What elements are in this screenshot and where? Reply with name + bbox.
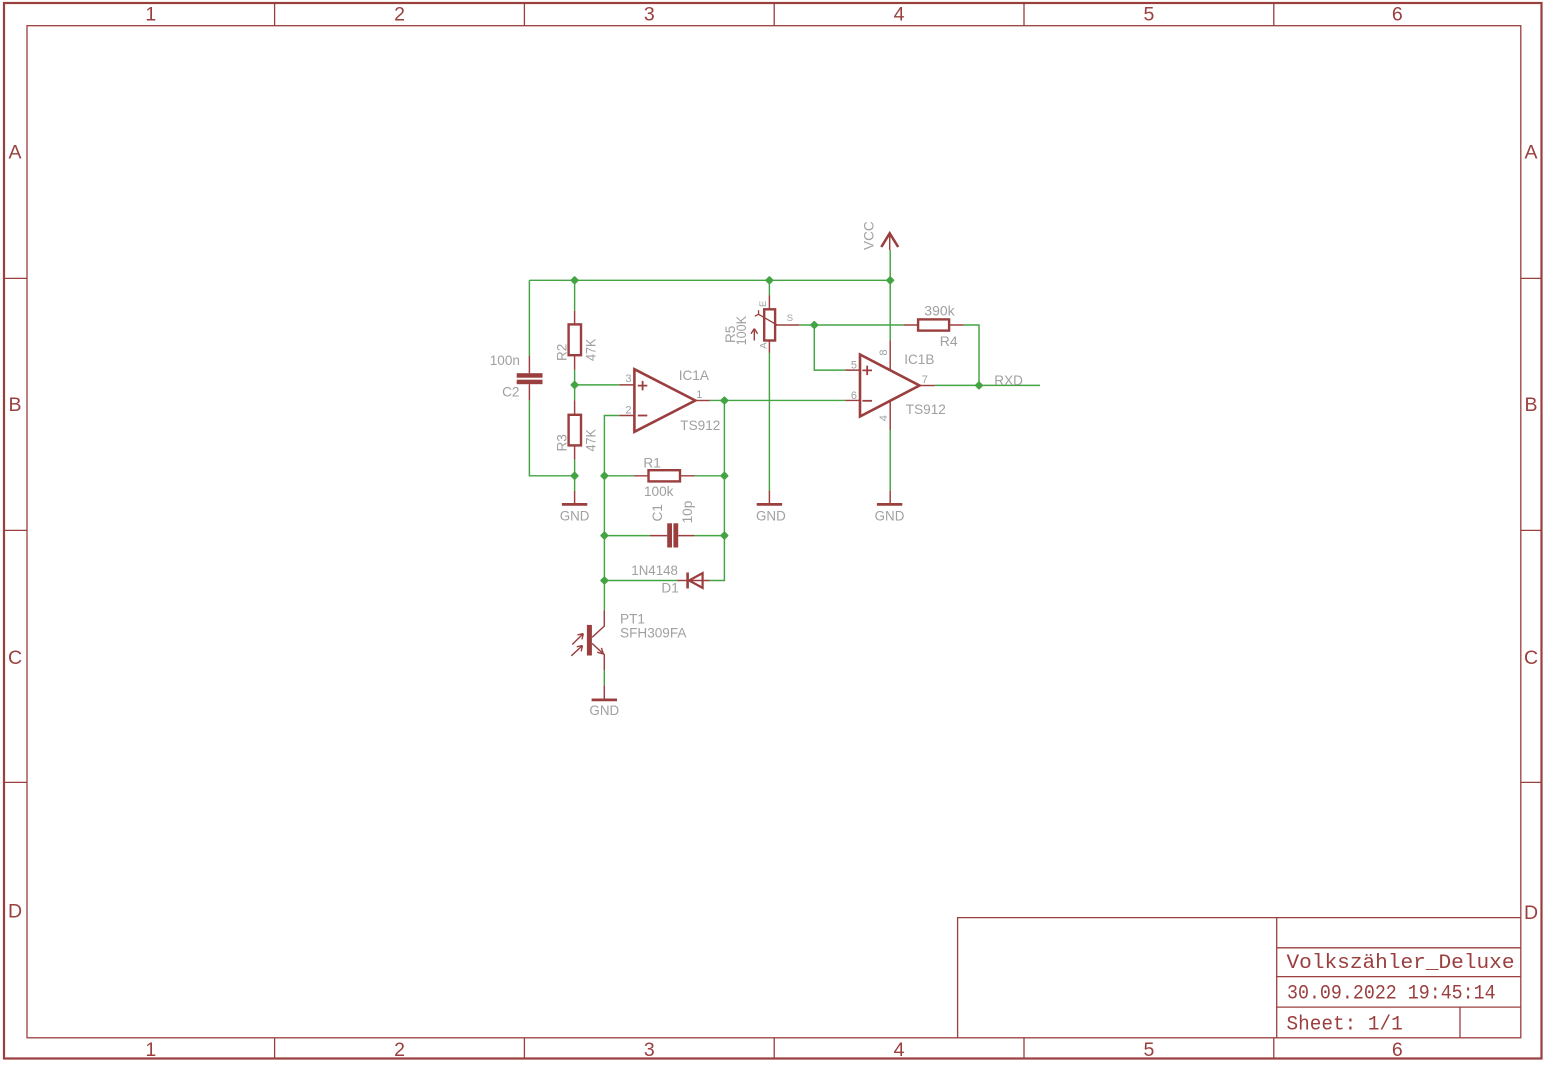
triangle	[689, 573, 703, 588]
body	[569, 415, 581, 446]
lead	[920, 385, 935, 387]
ground bar	[562, 503, 587, 506]
lead	[775, 324, 799, 326]
svg-text:B: B	[8, 394, 21, 416]
svg-text:1: 1	[696, 389, 702, 401]
wire op-amp A output to IC1B -input	[710, 399, 846, 401]
svg-text:GND: GND	[589, 703, 619, 718]
ground GND (R3 node)	[560, 491, 590, 523]
svg-text:5: 5	[1143, 1039, 1154, 1061]
svg-text:1: 1	[145, 4, 156, 26]
svg-text:E: E	[758, 301, 769, 307]
svg-text:R1: R1	[643, 456, 660, 471]
lead	[768, 295, 770, 352]
svg-text:B: B	[1524, 394, 1537, 416]
triangle body	[634, 369, 695, 432]
svg-text:C2: C2	[502, 384, 519, 399]
op-amp U1 IC1A	[619, 368, 720, 433]
svg-text:S: S	[787, 313, 793, 324]
power VCC arrow	[862, 221, 899, 250]
title block	[958, 918, 1521, 1038]
svg-text:D1: D1	[661, 581, 678, 596]
junction node feedback / R1 left	[601, 473, 607, 479]
svg-text:GND: GND	[875, 508, 905, 523]
svg-text:R4: R4	[940, 333, 958, 349]
svg-text:IC1B: IC1B	[904, 352, 934, 367]
lead	[574, 400, 576, 459]
svg-text:4: 4	[878, 415, 890, 421]
resistor R2	[554, 311, 598, 370]
ground bar	[592, 699, 617, 702]
capacitor C2	[490, 353, 543, 400]
svg-text:6: 6	[1392, 1039, 1403, 1061]
svg-text:D: D	[1524, 902, 1538, 924]
lead	[574, 311, 576, 370]
lead	[678, 580, 710, 582]
wire RXD net	[935, 384, 1040, 386]
junction node VCC bus / R2	[572, 277, 578, 283]
cathode bar	[686, 573, 689, 589]
svg-text:Sheet: 1/1: Sheet: 1/1	[1287, 1014, 1403, 1037]
body	[569, 324, 581, 355]
lead	[889, 233, 891, 250]
wire R4 right to output node	[964, 325, 979, 385]
svg-text:3: 3	[644, 4, 655, 26]
svg-text:3: 3	[644, 1039, 655, 1061]
ground bar	[877, 503, 902, 506]
svg-text:390k: 390k	[924, 302, 955, 318]
plate	[517, 380, 543, 385]
svg-text:TS912: TS912	[906, 402, 946, 417]
svg-text:100n: 100n	[490, 353, 520, 368]
lead	[845, 370, 859, 400]
body	[649, 470, 681, 481]
svg-text:3: 3	[625, 373, 631, 385]
lead	[574, 491, 576, 503]
svg-text:R3: R3	[554, 434, 569, 451]
svg-text:47K: 47K	[584, 429, 599, 452]
potentiometer R5	[723, 295, 799, 352]
plate	[667, 523, 672, 547]
lead	[904, 324, 964, 326]
svg-text:C: C	[1524, 647, 1538, 669]
svg-text:VCC: VCC	[862, 221, 877, 250]
lead	[889, 491, 891, 504]
svg-text:2: 2	[394, 4, 405, 26]
svg-text:4: 4	[894, 1039, 905, 1061]
svg-text:30.09.2022 19:45:14: 30.09.2022 19:45:14	[1287, 983, 1496, 1006]
polarity mark	[638, 415, 648, 417]
svg-text:A: A	[8, 142, 21, 164]
ground GND (PT1)	[589, 685, 619, 718]
svg-text:7: 7	[922, 374, 928, 386]
arrow	[572, 634, 583, 645]
lead	[889, 340, 891, 430]
svg-text:6: 6	[1392, 4, 1403, 26]
svg-text:R2: R2	[554, 344, 569, 361]
base bar	[587, 625, 592, 656]
lead	[634, 475, 694, 477]
svg-text:2: 2	[625, 405, 631, 417]
wire R5 bottom to GND	[768, 353, 770, 491]
svg-text:IC1A: IC1A	[679, 368, 710, 383]
junction node IC1A output	[721, 397, 727, 403]
ground GND (IC1B)	[875, 491, 905, 524]
svg-text:6: 6	[851, 390, 857, 402]
svg-text:10p: 10p	[680, 501, 695, 524]
lead	[650, 535, 695, 537]
arrow	[597, 648, 603, 654]
svg-text:PT1: PT1	[620, 612, 645, 627]
svg-text:100K: 100K	[734, 316, 749, 346]
junction node VCC bus / VCC column	[887, 277, 893, 283]
svg-text:Volkszähler_Deluxe: Volkszähler_Deluxe	[1287, 952, 1515, 975]
svg-text:8: 8	[878, 349, 890, 355]
triangle body	[860, 355, 920, 417]
lead	[592, 643, 604, 670]
wire D1 row	[604, 400, 724, 580]
wire C2 left branch	[529, 280, 574, 476]
wire op-amp A -input feedback column	[604, 416, 619, 611]
transistor Q1 PT1 phototransistor	[571, 610, 687, 670]
svg-text:C: C	[8, 647, 22, 669]
svg-text:5: 5	[851, 360, 857, 372]
wire PT1 emitter to GND	[603, 670, 605, 685]
junction node feedback / D1 left	[601, 577, 607, 583]
wire C1 row	[604, 535, 724, 537]
wire R2 branch	[574, 280, 576, 491]
junction node R5 wiper	[811, 322, 817, 328]
svg-text:GND: GND	[756, 508, 786, 523]
plate	[673, 523, 678, 547]
svg-text:RXD: RXD	[994, 373, 1023, 388]
arrow	[571, 646, 582, 656]
wire VCC column	[889, 250, 891, 491]
capacitor C1	[650, 501, 696, 548]
svg-text:47K: 47K	[584, 339, 599, 362]
op-amp U2 IC1B	[845, 340, 945, 430]
svg-text:C1: C1	[650, 504, 665, 521]
polarity mark	[638, 381, 648, 391]
svg-text:TS912: TS912	[680, 418, 720, 433]
svg-text:A: A	[1524, 142, 1537, 164]
junction node R2/R3 divider	[572, 382, 578, 388]
wire VCC bus top	[529, 279, 890, 281]
resistor R1	[634, 456, 694, 500]
arrow	[755, 310, 777, 325]
polarity mark	[862, 400, 872, 402]
wire R5 top branch	[768, 280, 770, 295]
wire R1 row	[604, 475, 724, 477]
svg-text:SFH309FA: SFH309FA	[620, 625, 687, 640]
lead	[592, 610, 604, 637]
junction node R3 bottom / GND	[572, 473, 578, 479]
junction node IC1B output / R4	[976, 382, 982, 388]
plate	[517, 373, 543, 378]
polarity mark	[862, 366, 872, 376]
junction node VCC bus / R5	[766, 277, 772, 283]
ground GND (R5)	[756, 491, 786, 524]
svg-text:5: 5	[1143, 4, 1154, 26]
junction node R1 right / output column	[721, 473, 727, 479]
ground bar	[757, 503, 782, 506]
lead	[768, 491, 770, 504]
svg-text:1N4148: 1N4148	[631, 563, 678, 578]
diode D1 1N4148	[631, 563, 709, 595]
junction node C1 right / output column	[721, 533, 727, 539]
svg-text:4: 4	[894, 4, 905, 26]
junction node feedback / C1 left	[601, 533, 607, 539]
lead	[603, 685, 605, 699]
arrow	[751, 329, 758, 341]
wire op-amp A +input	[575, 384, 620, 386]
body	[764, 309, 775, 340]
svg-text:100k: 100k	[644, 484, 674, 499]
arrow head	[881, 233, 898, 247]
resistor R4 390k	[904, 302, 964, 349]
wire R5 wiper to IC1B +input	[799, 325, 904, 370]
lead	[695, 400, 710, 402]
resistor R3	[554, 400, 598, 459]
lead	[528, 356, 530, 400]
svg-text:2: 2	[394, 1039, 405, 1061]
svg-text:GND: GND	[560, 508, 590, 523]
lead	[619, 385, 633, 416]
svg-text:D: D	[8, 901, 22, 923]
body	[918, 319, 949, 330]
svg-text:A: A	[759, 342, 770, 349]
svg-text:1: 1	[145, 1039, 156, 1061]
